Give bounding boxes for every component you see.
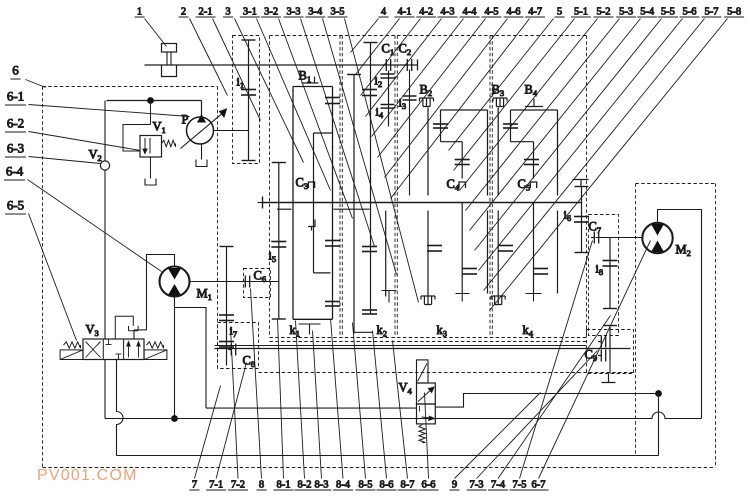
svg-text:4-1: 4-1 xyxy=(398,7,412,18)
leader for label 7-2 xyxy=(231,328,239,479)
group5 inner shaft lower xyxy=(533,142,535,179)
k2 shaft a xyxy=(353,75,355,334)
wire: clutch C7 to motor M2 xyxy=(596,237,644,239)
solenoid left of V3 xyxy=(60,350,83,360)
wire: input shaft xyxy=(145,64,418,66)
leader for label 6 xyxy=(26,80,46,88)
svg-text:4-7: 4-7 xyxy=(528,7,542,18)
svg-text:6-4: 6-4 xyxy=(6,164,24,179)
svg-text:6-1: 6-1 xyxy=(7,89,24,104)
leader for label 1 xyxy=(145,19,167,47)
wire: V1 pilot loop xyxy=(123,125,151,152)
svg-text:3: 3 xyxy=(225,7,230,18)
k2 shaft b xyxy=(370,43,372,314)
leader for label 3-4 xyxy=(323,19,397,275)
k2 hub bar xyxy=(334,208,370,210)
wire: hose to V4 left port xyxy=(206,407,417,409)
hub bar left of drum xyxy=(277,208,291,210)
gearbox bottom edge second line xyxy=(270,341,587,343)
hydraulic box bottom edge xyxy=(43,467,716,469)
svg-text:8-7: 8-7 xyxy=(401,480,415,491)
V4 lower arrow head xyxy=(429,416,435,420)
mesh group5 lower2 xyxy=(533,268,548,270)
wire: V3 drain down with crossover bump xyxy=(117,360,124,456)
solenoid right of V3 xyxy=(144,350,167,360)
leader for label 5-7 xyxy=(484,19,705,291)
leader for label 8-1 xyxy=(278,319,284,479)
leader for label 5-1 xyxy=(454,19,575,171)
group5 drum left wall xyxy=(497,108,499,196)
svg-text:7-5: 7-5 xyxy=(513,480,527,491)
spring left of V3 xyxy=(64,342,81,348)
leader for label 7-3 xyxy=(477,351,598,479)
leader for label 7 xyxy=(195,386,221,479)
svg-text:8-5: 8-5 xyxy=(359,480,373,491)
wire: M1 upper hose xyxy=(147,255,175,330)
wire: V1 drain xyxy=(150,157,152,179)
leader for label 3-1 xyxy=(257,19,331,191)
tank below V1 xyxy=(145,179,156,186)
svg-text:8-2: 8-2 xyxy=(298,480,312,491)
svg-text:3-2: 3-2 xyxy=(264,7,278,18)
gear i1 dashed box xyxy=(233,36,260,164)
mesh group4 upper xyxy=(433,123,448,125)
group4 inner shaft upper xyxy=(440,110,442,142)
leader for label 3-2 xyxy=(279,19,353,219)
mesh group4 lower2 xyxy=(462,268,477,270)
ground anchor group4 xyxy=(456,294,470,302)
leader for label 7-1 xyxy=(216,363,246,479)
mesh group5 upper xyxy=(503,123,518,125)
leader for label 6-6 xyxy=(425,393,429,479)
leader for label 5-2 xyxy=(460,19,598,191)
wire: long bottom hose y=455 xyxy=(117,455,659,457)
leader for label 9 xyxy=(455,393,541,479)
mesh i2 xyxy=(381,73,395,75)
group3 drum top bar xyxy=(293,86,333,88)
group4 inner shaft lower xyxy=(461,142,463,179)
svg-text:3-1: 3-1 xyxy=(243,7,257,18)
svg-text:3-3: 3-3 xyxy=(287,7,301,18)
spring of V1 xyxy=(162,140,176,146)
leader for label 6-4 xyxy=(28,180,162,272)
group4 inner step xyxy=(441,141,463,143)
wire: lower output shaft xyxy=(215,348,631,350)
ground anchor group5 xyxy=(526,294,542,302)
svg-text:6: 6 xyxy=(12,63,19,78)
leader for label 8-3 xyxy=(313,331,322,479)
svg-text:5-8: 5-8 xyxy=(727,7,741,18)
mesh group3 low xyxy=(325,301,340,303)
svg-text:6-6: 6-6 xyxy=(422,480,436,491)
clutch C3 lower half xyxy=(308,220,315,231)
wire: charge suction line upper xyxy=(104,101,106,162)
wire: V4 output hose to motor M2 circuit xyxy=(435,394,658,408)
wire: long hose y=418 with crossover bump to M2 branch xyxy=(105,412,702,419)
svg-text:5-1: 5-1 xyxy=(574,7,588,18)
leader for label 3-3 xyxy=(301,19,375,247)
leader for label 8-5 xyxy=(353,323,366,479)
hydraulic motor M2 xyxy=(642,223,672,253)
leader for label 5 xyxy=(449,19,554,151)
group3 inner shaft xyxy=(313,133,315,273)
leader for label 7-5 xyxy=(520,241,593,479)
k2 anchor bracket xyxy=(382,291,397,303)
motor M2 box top edge xyxy=(636,183,716,185)
group3 inner step upper xyxy=(314,132,333,134)
leader for label 6-3 xyxy=(29,157,101,164)
double dashed divider k1/k2 xyxy=(339,36,341,338)
leader for label 4-5 xyxy=(378,19,486,158)
group5 inner shaft upper xyxy=(510,110,512,142)
leader for label 4 xyxy=(351,19,379,53)
leader for label 5-8 xyxy=(490,19,728,311)
wire: M1 branch down to V4 feed xyxy=(175,308,207,409)
leader for label 4-4 xyxy=(372,19,464,137)
wire: M2 feed down to bottom hose xyxy=(658,394,660,456)
k2 bottom bar xyxy=(354,331,373,333)
svg-text:6-2: 6-2 xyxy=(7,116,24,131)
svg-text:2: 2 xyxy=(181,7,186,18)
pump P (variable displacement) xyxy=(201,101,203,117)
clutch C6 dashed box xyxy=(244,269,271,298)
wire: M1 lower hose to junction xyxy=(174,297,176,419)
clutch C9 dashed box xyxy=(587,330,634,374)
mesh group4 lower1 xyxy=(427,245,442,247)
leader for label 8-6 xyxy=(373,331,387,479)
svg-text:7-4: 7-4 xyxy=(491,480,506,491)
svg-text:5: 5 xyxy=(557,7,562,18)
svg-text:7: 7 xyxy=(192,480,197,491)
svg-text:8-3: 8-3 xyxy=(315,480,329,491)
leader for label 5-4 xyxy=(470,19,641,231)
wire: branch left to V3 right port xyxy=(134,329,147,331)
mesh i3 xyxy=(403,95,417,97)
group5 lower shaft c xyxy=(557,211,559,294)
leader for label 4-2 xyxy=(361,19,421,96)
spring below V4 xyxy=(419,425,425,443)
svg-text:6-7: 6-7 xyxy=(532,480,546,491)
gear i2/i4 shaft xyxy=(388,71,390,127)
group4 drum right wall xyxy=(487,110,489,196)
svg-text:7-3: 7-3 xyxy=(470,480,484,491)
svg-text:5-7: 5-7 xyxy=(705,7,719,18)
svg-text:4-5: 4-5 xyxy=(485,7,499,18)
group3 inner step lower xyxy=(314,272,331,274)
group4 lower shaft b xyxy=(461,203,463,294)
clutch C7 / gear i8 dashed box xyxy=(589,215,619,336)
double dashed divider k3/k4 xyxy=(489,36,491,338)
group5 drum right wall xyxy=(557,110,559,196)
mesh group4 mid xyxy=(455,159,470,161)
svg-text:5-6: 5-6 xyxy=(683,7,697,18)
wire: C2 shaft down to main shaft xyxy=(409,70,411,196)
double dashed divider k2/k3 xyxy=(394,36,396,338)
leader for label 8-7 xyxy=(393,341,408,479)
gear i8 xyxy=(609,238,611,309)
svg-text:8-4: 8-4 xyxy=(336,480,351,491)
svg-text:6-5: 6-5 xyxy=(7,198,24,213)
junction node bottom right xyxy=(655,390,662,397)
V4 arrow head xyxy=(428,387,434,392)
input shaft end tick xyxy=(417,60,419,71)
svg-text:4-6: 4-6 xyxy=(507,7,521,18)
svg-text:4: 4 xyxy=(381,7,387,18)
leader for label 7-4 xyxy=(498,316,611,479)
hydraulic box top edge xyxy=(43,86,218,88)
leader for label 8-4 xyxy=(331,319,344,479)
leader for label 4-7 xyxy=(391,19,530,199)
mesh k2 top xyxy=(362,89,377,91)
leader for label 5-6 xyxy=(479,19,683,271)
input support bracket xyxy=(162,65,177,77)
drain bracket above V3 xyxy=(129,326,139,331)
leader for label 3-5 xyxy=(345,19,419,303)
relief valve V1 xyxy=(140,136,162,158)
wire: V3 bottom port down xyxy=(104,360,106,419)
group3 drum right wall xyxy=(332,87,334,320)
mesh i4 xyxy=(381,104,395,106)
leader for label 8 xyxy=(251,289,262,479)
group5 drum top bar xyxy=(511,109,558,111)
hydraulic box right edge xyxy=(715,184,717,468)
svg-text:5-5: 5-5 xyxy=(661,7,675,18)
mesh group3 top xyxy=(325,97,340,99)
motor M2 box left edge xyxy=(635,184,637,456)
svg-text:2-1: 2-1 xyxy=(199,7,213,18)
main shaft left end cap xyxy=(262,197,264,209)
wire: planetary main shaft xyxy=(263,202,582,204)
svg-text:3-5: 3-5 xyxy=(331,7,345,18)
leader for label 4-3 xyxy=(366,19,442,117)
gear i7 xyxy=(220,246,234,248)
directional valve V3 xyxy=(83,339,144,360)
leader for label 5-5 xyxy=(475,19,662,251)
wire: V3 right port drop xyxy=(133,330,135,339)
mesh k2 low xyxy=(362,309,377,311)
wire: M1 output shaft through clutch C6 to gear i5 xyxy=(190,281,279,283)
group3 drum left wall xyxy=(292,87,294,320)
wire: lower shaft second line xyxy=(215,345,587,347)
control dashed line to C8/C9 xyxy=(259,372,634,374)
gear i7 / clutch C8 dashed box xyxy=(218,323,259,369)
leader for label 2 xyxy=(190,19,228,96)
svg-text:7-2: 7-2 xyxy=(231,480,245,491)
pump arrow head xyxy=(220,109,227,117)
wire: line V2 to V3 xyxy=(104,170,106,339)
svg-text:PV001.COM: PV001.COM xyxy=(37,467,138,484)
wire: pilot from junction to V1 xyxy=(150,101,152,125)
mesh group5 mid xyxy=(524,159,539,161)
wire: shaft above C9 xyxy=(609,326,611,359)
group3 drum bottom bar xyxy=(293,318,333,320)
group5 inner step xyxy=(511,141,534,143)
k2 right shaft xyxy=(385,211,387,297)
junction node at charge line xyxy=(147,97,154,104)
group5 lower shaft b xyxy=(533,203,535,294)
mesh k2 mid xyxy=(362,246,377,248)
wire: pump drain xyxy=(201,144,203,160)
group4 drum top bar xyxy=(441,109,488,111)
gear pair i1 xyxy=(242,39,256,41)
gearbox right edge xyxy=(586,36,588,338)
svg-text:6-3: 6-3 xyxy=(7,141,24,156)
wire: V3 pilot line xyxy=(115,316,133,339)
leader for label 6-5 xyxy=(29,214,77,341)
frame anchor above i6 xyxy=(573,180,589,187)
svg-text:7-1: 7-1 xyxy=(209,480,223,491)
mesh group5 lower1 xyxy=(498,245,513,247)
spring right of V3 xyxy=(147,342,164,348)
group4 lower shaft a xyxy=(427,211,429,296)
svg-text:8-6: 8-6 xyxy=(380,480,394,491)
leader for label 5-3 xyxy=(466,19,620,211)
svg-text:9: 9 xyxy=(452,480,457,491)
svg-text:4-2: 4-2 xyxy=(419,7,433,18)
k1 anchor bracket xyxy=(299,324,321,335)
V1 arrow head xyxy=(143,149,147,154)
svg-text:8: 8 xyxy=(259,480,264,491)
tank below pump P xyxy=(196,160,207,167)
wire: C9 shaft lower xyxy=(609,359,611,374)
leader for label 3 xyxy=(235,19,304,163)
directional valve V4 solenoid box xyxy=(417,360,429,383)
gearbox bottom edge xyxy=(270,337,587,339)
group4 lower shaft c xyxy=(487,211,489,294)
leader for label 2-1 xyxy=(213,19,261,121)
svg-text:4-4: 4-4 xyxy=(463,7,478,18)
leader for label 8-2 xyxy=(296,321,305,479)
hydraulic box inner right edge xyxy=(217,87,219,366)
junction node lower left xyxy=(171,415,178,422)
leader for label 4-6 xyxy=(385,19,508,178)
svg-text:P: P xyxy=(182,113,189,127)
svg-text:3-4: 3-4 xyxy=(308,7,323,18)
gear i5 xyxy=(272,162,286,164)
mesh group3 mid xyxy=(325,240,340,242)
svg-text:5-3: 5-3 xyxy=(619,7,633,18)
ground anchor below C9 xyxy=(602,374,616,383)
svg-text:5-2: 5-2 xyxy=(597,7,611,18)
gearbox top edge xyxy=(270,35,587,37)
svg-text:1: 1 xyxy=(137,7,142,18)
directional valve V4 xyxy=(417,383,436,404)
svg-text:8-1: 8-1 xyxy=(277,480,291,491)
leader for label 4-1 xyxy=(356,19,400,75)
wire: M2 upper hose loop xyxy=(658,210,702,419)
group5 lower shaft a xyxy=(497,211,499,296)
svg-text:5-4: 5-4 xyxy=(640,7,655,18)
gearbox left edge xyxy=(269,36,271,338)
group4 drum left wall xyxy=(427,108,429,196)
wire: charge line from V2 to pump inlet xyxy=(107,100,202,102)
leader for label 6-2 xyxy=(29,132,141,151)
hydraulic motor M1 xyxy=(160,267,190,297)
hydraulic box left edge xyxy=(42,87,44,468)
leader for label 6-1 xyxy=(29,105,190,117)
svg-text:4-3: 4-3 xyxy=(441,7,455,18)
leader for label 6-7 xyxy=(539,241,651,479)
input shaft support bearing (part 1) xyxy=(162,44,177,53)
wire: pump drive from gear i1 xyxy=(214,130,249,132)
